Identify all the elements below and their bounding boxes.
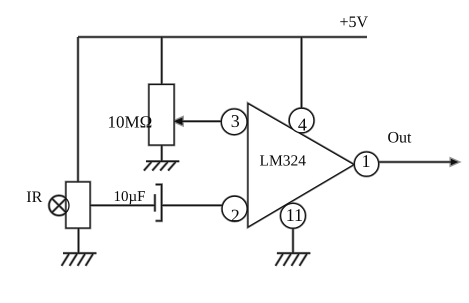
svg-text:1: 1 (362, 151, 371, 171)
svg-text:10µF: 10µF (114, 189, 146, 205)
svg-text:LM324: LM324 (260, 152, 307, 169)
svg-text:4: 4 (298, 114, 307, 134)
svg-text:+5V: +5V (340, 14, 369, 31)
svg-text:11: 11 (286, 205, 303, 225)
svg-text:3: 3 (231, 111, 240, 131)
svg-text:IR: IR (26, 189, 42, 206)
svg-text:10MΩ: 10MΩ (108, 112, 153, 131)
svg-text:2: 2 (231, 206, 240, 226)
svg-text:Out: Out (388, 130, 413, 147)
